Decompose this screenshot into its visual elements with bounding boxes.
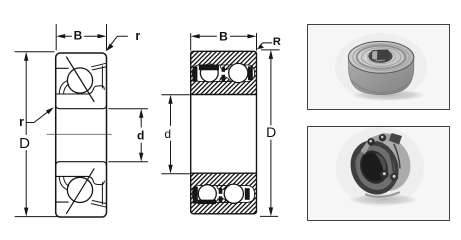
bottom outer raceway left lip — [56, 201, 68, 203]
svg-text:D: D — [19, 135, 30, 152]
leader r (left middle) — [27, 110, 51, 123]
top photo: groove ring dark — [357, 46, 406, 69]
top bore line with rounded ends — [56, 105, 107, 109]
top photo: shield highlight left — [364, 49, 375, 60]
bottom band hatch wedges between balls — [217, 186, 229, 191]
top inner shoulder arcs left of ball — [59, 81, 68, 94]
bottom inner shoulder arcs left of ball — [59, 176, 68, 189]
dimension B (middle) line + arrows — [199, 35, 250, 37]
top photo: bore dark ring — [368, 50, 392, 63]
top photo box — [308, 25, 450, 110]
top photo: inner ring face — [367, 50, 395, 64]
top band white ball channel — [192, 65, 254, 82]
bottom contact-angle diagonal — [67, 169, 95, 214]
cage band — [350, 140, 401, 195]
top photo: rim inner edge — [353, 44, 409, 71]
bottom photo: top balls — [367, 138, 374, 145]
dimension d (middle) extension lines — [162, 95, 190, 174]
top band black cage marks — [193, 67, 198, 82]
top photo: hole left inner wall light — [372, 51, 377, 60]
top contact-angle diagonal — [67, 57, 95, 102]
bottom photo: bottom bright rim — [366, 193, 399, 197]
svg-text:D: D — [266, 124, 276, 140]
svg-text:r: r — [19, 115, 24, 129]
bottom band hatched — [191, 173, 257, 214]
svg-text:r: r — [135, 29, 140, 43]
bearing outline (outer ring rounded rectangle) — [56, 53, 107, 217]
leader r (top right of left drawing) — [109, 36, 128, 47]
svg-text:R: R — [273, 36, 281, 48]
bore back wall light crescent — [375, 151, 390, 178]
bottom left ball — [198, 185, 216, 203]
bottom inner ring shoulder shelf — [94, 181, 105, 185]
svg-text:B: B — [74, 29, 83, 43]
bottom inner ring lower surface — [56, 176, 94, 182]
bottom ball — [67, 177, 92, 202]
dimension d (middle) line + arrows — [170, 103, 172, 166]
svg-text:d: d — [164, 127, 171, 141]
top photo: body dark bottom edge — [352, 81, 411, 93]
svg-text:B: B — [219, 30, 228, 44]
bottom band black cage marks — [193, 187, 198, 204]
dimension D line + arrows — [25, 60, 27, 209]
bottom photo: front balls — [380, 170, 389, 179]
svg-text:d: d — [137, 128, 144, 142]
bottom bore line with rounded ends — [56, 162, 107, 166]
bore — [358, 149, 389, 184]
bottom cage divider right — [101, 182, 103, 204]
dimension D (middle) line + arrows — [270, 58, 272, 209]
bottom photo: bearing outer OD bright band — [343, 129, 418, 202]
bottom photo: shadow — [349, 194, 417, 206]
bearing front face ring — [343, 134, 406, 202]
dimension D extension lines — [15, 52, 59, 217]
dimension B line + arrows — [64, 35, 99, 37]
bottom photo: top plate right notch — [389, 133, 402, 145]
middle bore side edges — [191, 95, 257, 174]
bottom right ball — [224, 184, 243, 203]
top outer raceway left lip — [56, 67, 68, 69]
top photo: shadow — [352, 90, 424, 101]
bottom photo: bore left rim light — [355, 153, 360, 177]
bottom photo: ridge dark lines on OD band — [388, 147, 394, 172]
top photo: hole bottom inner light — [374, 60, 386, 62]
top photo: shield ring — [361, 48, 401, 67]
top inner ring upper surface — [56, 89, 94, 95]
dimension d (right of left drawing) extension lines — [109, 109, 148, 162]
top band hatch wedges between balls — [220, 65, 233, 70]
top right ball — [229, 63, 248, 82]
top left ball — [200, 64, 218, 82]
bottom photo box — [308, 127, 450, 221]
top photo: bearing body cylinder — [349, 56, 414, 95]
bottom band white ball channel — [192, 186, 254, 203]
dimension B (middle) extension lines — [191, 34, 257, 51]
top cage divider right — [101, 66, 103, 88]
top photo: bore square hole — [371, 49, 390, 61]
inner ring dark edge — [355, 147, 392, 188]
dimension d line + arrows — [140, 117, 142, 154]
top inner ring shoulder shelf — [94, 86, 105, 90]
leader R — [259, 43, 272, 47]
bottom photo: top cage plate — [361, 133, 400, 154]
top photo: bearing top face — [348, 41, 413, 73]
top band hatched (outer+inner ring) — [191, 51, 257, 94]
centerline — [47, 133, 112, 135]
top ball — [67, 68, 92, 93]
dimension B (left drawing) extension lines — [56, 25, 106, 51]
dimension D (middle) extension lines — [260, 50, 279, 217]
bottom outer shoulder lines right — [92, 201, 107, 208]
top outer shoulder lines right — [92, 63, 107, 70]
